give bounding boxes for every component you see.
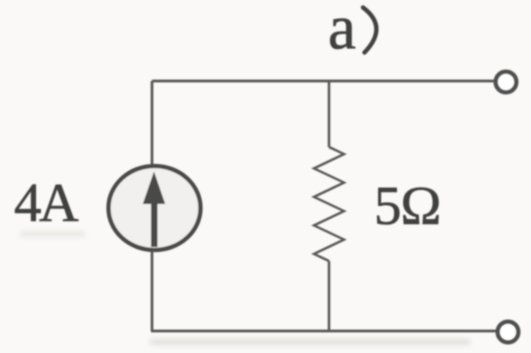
wire: left vertical lower segment (current source bottom to corner) <box>151 251 154 331</box>
label a) sub-figure caption: fullwidth close paren <box>363 8 376 53</box>
wire: top horizontal from left branch to right terminal <box>152 80 494 83</box>
terminal: bottom-right open circle <box>498 322 519 343</box>
current source I1 4A (circle with upward arrow) <box>109 166 201 250</box>
terminal: top-right open circle <box>496 72 517 93</box>
wire: resistor top lead from top wire junction <box>328 81 331 147</box>
svg-text:5Ω: 5Ω <box>374 175 440 236</box>
resistor R 5Ω zigzag <box>314 147 344 261</box>
svg-text:4A: 4A <box>14 172 79 233</box>
wire: bottom horizontal from left corner to right terminal <box>151 330 496 333</box>
svg-text:a: a <box>328 0 356 63</box>
scan smudge under bottom wire <box>150 340 470 345</box>
wire: resistor bottom lead down to bottom wire junction <box>328 261 331 331</box>
wire: left vertical upper segment (corner to current source top) <box>151 81 154 165</box>
